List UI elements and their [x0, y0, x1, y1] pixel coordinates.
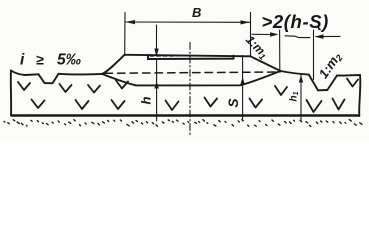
B extension line left: [124, 13, 126, 55]
>2(h-S) jog connector: [285, 36, 310, 38]
S up arrowhead: [240, 77, 244, 85]
peat mark v upper 2: [60, 84, 72, 92]
B arrowhead left: [126, 20, 136, 24]
S dimension line: [242, 56, 244, 122]
svg-text:>2(h-S): >2(h-S): [262, 11, 329, 32]
>2(h-S) arrowhead onto ditch line: [315, 34, 324, 39]
ground surface right of ditch: [337, 74, 360, 77]
peat mark v lower 5: [205, 98, 218, 107]
peat mark v lower 7: [307, 100, 322, 112]
>2(h-S) dimension right tail: [316, 35, 340, 37]
peat mark v lower 2: [76, 100, 89, 109]
ditch left slope: [309, 75, 318, 91]
embankment left slope: [102, 55, 125, 74]
stipple hatch below bottom line: [3, 120, 6, 123]
svg-text:i≥5‰: i≥5‰: [20, 52, 81, 69]
peat mark v under right toe: [275, 86, 287, 95]
>2(h-S) extension line A at toe: [279, 30, 281, 70]
peat mark v upper 4: [116, 81, 128, 89]
peat mark v upper 1: [18, 82, 30, 90]
peat mark v upper right: [347, 79, 358, 87]
B dimension line: [126, 21, 250, 23]
peat mark v lower 6: [250, 99, 263, 108]
ditch bottom: [318, 89, 327, 91]
ditch right slope 1:m2: [327, 76, 337, 91]
h dimension lower line: [156, 59, 158, 121]
svg-text:h1: h1: [289, 91, 301, 101]
roadway left tick: [147, 55, 149, 59]
right depth dimension line: [300, 75, 302, 121]
h up arrowhead: [154, 81, 158, 89]
roadway right tick: [233, 56, 235, 59]
right boundary edge: [359, 75, 360, 116]
svg-text:1:m2: 1:m2: [316, 49, 345, 81]
svg-text:h: h: [139, 97, 154, 105]
h dimension upper line: [156, 25, 158, 53]
h down arrowhead: [154, 49, 158, 57]
dashed settlement line: [105, 72, 280, 73]
embankment right slope 1:m1: [251, 56, 281, 71]
right depth up arrowhead: [299, 75, 303, 83]
peat mark v lower 1: [32, 100, 45, 109]
centerline dash-dot: [189, 43, 191, 137]
mineral bottom line: [11, 114, 359, 117]
svg-text:B: B: [192, 5, 201, 20]
B extension line right: [250, 13, 252, 57]
peat mark v lower 3: [112, 100, 125, 109]
roadway inner line: [148, 58, 234, 60]
embankment crest: [125, 55, 251, 57]
left boundary edge: [10, 71, 12, 116]
peat mark v upper 3: [88, 85, 100, 93]
roadway upper faint line: [150, 55, 232, 57]
embankment settled bottom: [102, 71, 281, 85]
small tick mark after >2(h-S) text: [318, 25, 322, 31]
peat mark v lower 4: [166, 101, 179, 111]
ground surface to embankment toe: [59, 73, 103, 76]
svg-text:1:m1: 1:m1: [242, 33, 271, 62]
>2(h-S) extension line B at ditch: [313, 30, 315, 80]
B arrowhead right: [241, 20, 251, 24]
ground surface right of toe: [281, 71, 309, 75]
>2(h-S) dimension left tail: [252, 33, 271, 35]
>2(h-S) arrowhead onto toe line: [270, 32, 279, 37]
svg-text:S: S: [226, 98, 241, 107]
ground surface left: [11, 71, 39, 76]
left ditch notch: [39, 74, 59, 84]
peat mark v lower 8: [333, 99, 345, 110]
